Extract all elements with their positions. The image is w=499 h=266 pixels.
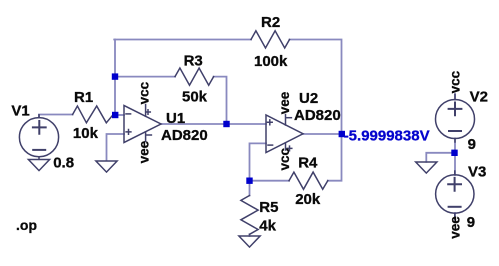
svg-text:V2: V2: [470, 88, 488, 105]
node R3 tap junction: [112, 73, 118, 79]
svg-text:-5.9999838V: -5.9999838V: [344, 128, 430, 145]
voltage source V3: [436, 171, 474, 219]
ground (V2/V3 midpoint): [416, 162, 437, 173]
node B junction (U1 output): [223, 121, 229, 127]
svg-text:4k: 4k: [259, 218, 276, 235]
wire top rail left to R2: [114, 39, 251, 41]
wire U1 output to U2 noninverting input: [161, 123, 266, 125]
wire node D down to R5: [249, 181, 251, 196]
resistor R5 (vertical): [241, 196, 258, 235]
svg-text:V3: V3: [468, 164, 486, 181]
svg-text:R3: R3: [184, 53, 203, 70]
wire node D to R4: [250, 180, 290, 182]
ground (below R5): [239, 236, 260, 247]
svg-text:100k: 100k: [254, 53, 288, 70]
svg-text:vee: vee: [448, 216, 463, 239]
svg-text:vcc: vcc: [277, 147, 292, 170]
wire V2 bottom to V3 top: [454, 139, 456, 176]
wire R3 right lead down to node B: [214, 77, 227, 124]
voltage source V1: [19, 115, 58, 160]
svg-text:9: 9: [468, 136, 476, 153]
node A junction: [112, 112, 118, 118]
wire node A to U1 inverting input: [115, 114, 124, 116]
wire V3 bottom to vee flag: [454, 213, 456, 220]
svg-text:V1: V1: [11, 103, 29, 120]
svg-text:R1: R1: [74, 89, 93, 106]
op-amp U2: [266, 115, 303, 153]
svg-text:AD820: AD820: [161, 127, 208, 144]
svg-text:.op: .op: [16, 217, 37, 233]
resistor R4: [289, 172, 328, 189]
svg-text:vcc: vcc: [448, 70, 463, 93]
svg-text:U1: U1: [166, 110, 185, 127]
resistor R1: [73, 106, 113, 123]
wire ground tap at V2/V3 node: [426, 153, 455, 162]
svg-text:vee: vee: [137, 140, 152, 163]
svg-text:vee: vee: [277, 91, 292, 114]
svg-text:AD820: AD820: [294, 107, 341, 124]
voltage source V2: [436, 95, 475, 143]
svg-text:0.8: 0.8: [53, 155, 74, 172]
wire R2 right to output node: [290, 40, 342, 135]
wire R3 left lead: [115, 76, 175, 78]
wire vcc flag to V2: [454, 94, 456, 100]
wire U2 inverting input down to node D: [250, 143, 267, 180]
node C junction (output): [339, 131, 345, 137]
svg-text:R4: R4: [298, 155, 318, 172]
node V2/V3 junction: [451, 150, 457, 156]
resistor R3: [175, 68, 214, 85]
wire U2 output to node C: [303, 133, 342, 135]
wire R5 bottom to ground: [249, 234, 251, 236]
op-amp U1: [124, 105, 161, 143]
svg-text:U2: U2: [299, 90, 318, 107]
svg-text:vcc: vcc: [137, 81, 152, 104]
node D junction (R4/R5): [246, 178, 252, 184]
resistor R2: [251, 31, 290, 48]
ground (U1 noninverting): [96, 161, 117, 172]
svg-text:20k: 20k: [295, 191, 321, 208]
svg-text:R5: R5: [259, 199, 278, 216]
wire U1 noninverting input to ground: [107, 134, 125, 161]
svg-text:9: 9: [467, 214, 475, 231]
wire R4 right lead up to output node: [328, 134, 342, 181]
svg-text:R2: R2: [261, 14, 280, 31]
ground (below V1): [28, 160, 49, 171]
wire V1 to R1: [39, 115, 73, 118]
svg-text:50k: 50k: [182, 89, 208, 106]
wire feedback left vertical (node A up to R2): [114, 40, 116, 116]
svg-text:10k: 10k: [73, 125, 99, 142]
